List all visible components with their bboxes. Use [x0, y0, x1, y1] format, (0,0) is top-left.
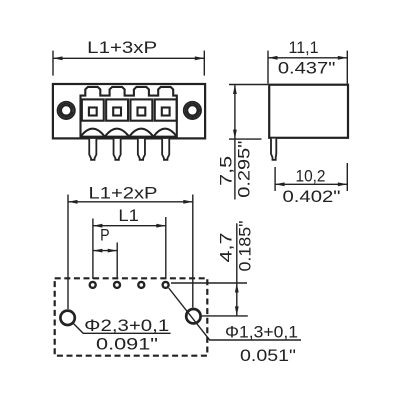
dimension 10,2 / 0.402" (pin to edge, side view)	[275, 163, 347, 191]
pin hole 1 (footprint)	[90, 282, 96, 288]
solder pin 1 (front view)	[89, 139, 96, 160]
solder pin 4 (front view)	[162, 139, 169, 160]
leader line for mounting hole diameter	[73, 323, 171, 333]
svg-text:0.051": 0.051"	[240, 347, 296, 365]
footprint outline (dashed)	[55, 278, 208, 355]
svg-text:L1+3xP: L1+3xP	[87, 39, 157, 57]
svg-text:10,2: 10,2	[296, 168, 326, 186]
svg-text:0.295": 0.295"	[235, 141, 253, 198]
right mounting hole (footprint)	[186, 309, 200, 323]
svg-text:7,5: 7,5	[217, 156, 235, 186]
contact cavity 3 (front view)	[130, 99, 152, 120]
svg-text:0.091": 0.091"	[96, 335, 158, 353]
right mounting ring (front view)	[184, 102, 201, 119]
solder pin 3 (front view)	[138, 139, 145, 160]
svg-text:L1+2xP: L1+2xP	[89, 184, 158, 202]
svg-text:0.402": 0.402"	[283, 188, 341, 206]
svg-text:11,1: 11,1	[289, 39, 319, 57]
contact cavity 1 (front view)	[82, 99, 104, 120]
svg-text:Φ1,3+0,1: Φ1,3+0,1	[225, 323, 298, 341]
contact cavity 4 (front view)	[155, 99, 177, 120]
leader line for pin hole diameter	[169, 288, 301, 340]
svg-text:Φ2,3+0,1: Φ2,3+0,1	[84, 317, 169, 335]
dimension P (pitch)	[93, 243, 117, 280]
contact cavity 2 (front view)	[106, 99, 128, 120]
dimension 7,5 / 0.295" (side view height)	[229, 85, 268, 200]
svg-text:P: P	[100, 226, 110, 244]
front view outer flange rectangle	[53, 84, 205, 138]
svg-text:L1: L1	[118, 207, 139, 225]
side view body rectangle	[269, 85, 348, 138]
dimension L1+2xP (mounting hole spacing)	[68, 195, 193, 310]
svg-text:4,7: 4,7	[218, 233, 236, 263]
dimension 11,1 / 0.437" (side view width)	[268, 51, 347, 84]
pin hole 3 (footprint)	[138, 282, 144, 288]
svg-text:0.185": 0.185"	[236, 220, 254, 271]
pin hole 4 (footprint)	[163, 282, 169, 288]
solder pin (side view)	[271, 139, 276, 160]
dimension L1+3xP (front view overall width)	[53, 51, 204, 76]
solder pin 2 (front view)	[114, 139, 121, 160]
dimension L1 (outer pin spacing)	[93, 217, 166, 279]
left mounting hole (footprint)	[60, 311, 74, 325]
pin hole 2 (footprint)	[114, 282, 120, 288]
connector body outline with keying bumps (front view)	[81, 87, 177, 137]
scalloped bottom edge of body	[81, 129, 177, 137]
dimension 4,7 / 0.185" (hole row offset)	[171, 223, 248, 316]
left mounting ring (front view)	[58, 102, 75, 119]
svg-text:0.437": 0.437"	[278, 60, 336, 78]
